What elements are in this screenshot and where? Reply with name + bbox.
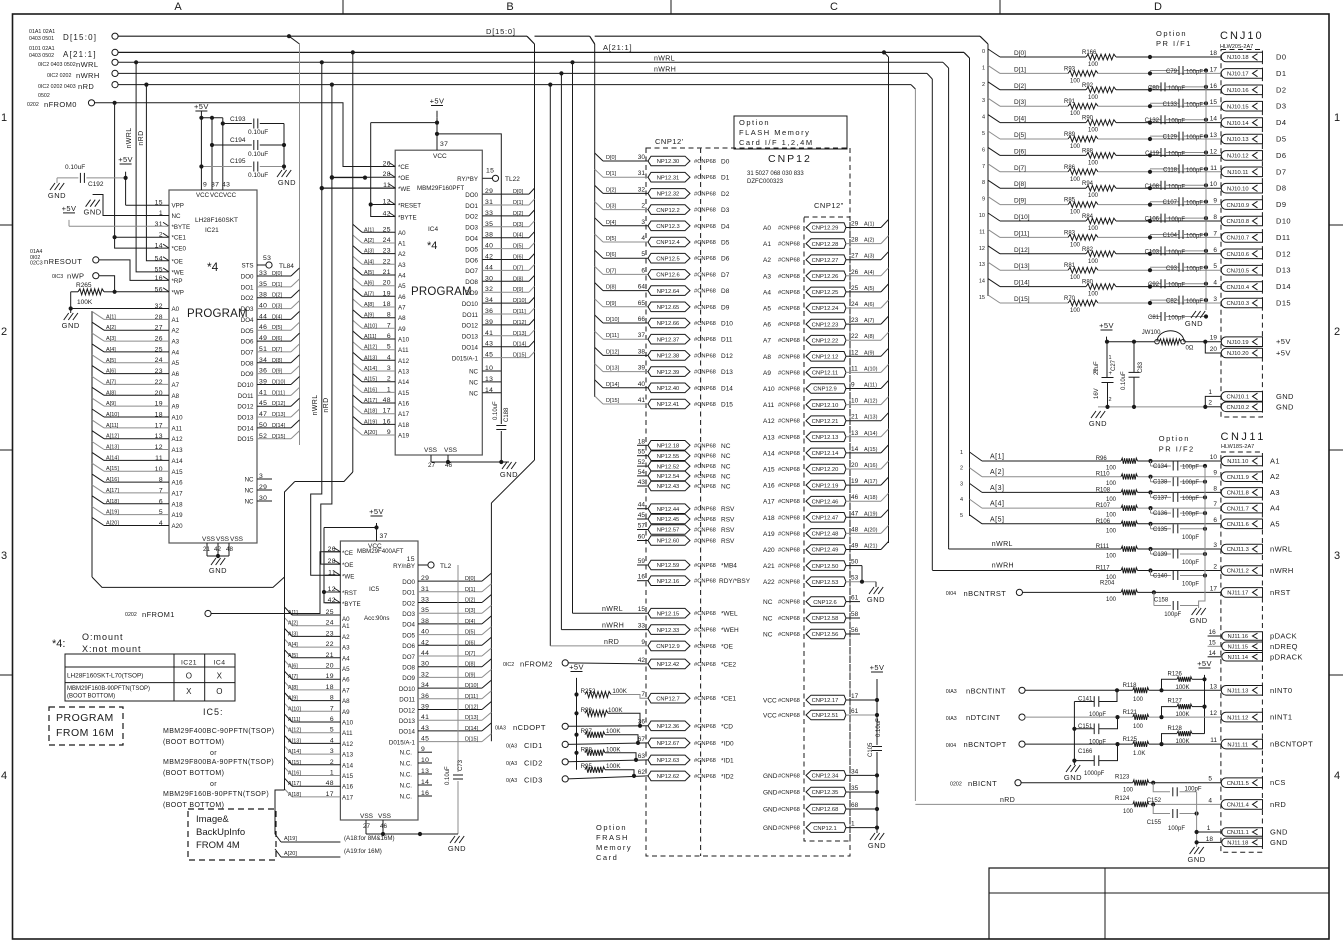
wire nRD to CNP12 OE [550,645,648,647]
wire nWRH [118,72,927,74]
svg-text:NP12.37: NP12.37 [657,337,680,343]
connector pin CNP12.38 D12 [648,351,690,361]
svg-text:#CNP68: #CNP68 [694,758,716,764]
svg-text:A10: A10 [172,415,184,422]
capacitor C140 [1150,571,1152,576]
svg-text:A18: A18 [398,422,410,429]
svg-text:CNJ11.6: CNJ11.6 [1227,522,1249,528]
svg-text:NP12.55: NP12.55 [657,454,680,460]
svg-text:R96: R96 [1096,456,1108,462]
svg-text:100pF: 100pF [1182,560,1199,566]
svg-text:A5: A5 [172,360,180,367]
flash memory IC4 MBM29F160PFT [395,150,482,455]
svg-text:D[5]: D[5] [513,244,524,250]
svg-text:A(8): A(8) [864,334,875,340]
svg-text:49: 49 [851,543,859,550]
svg-text:#CNP68: #CNP68 [694,321,716,327]
svg-text:DO9: DO9 [402,675,415,682]
svg-text:X:not mount: X:not mount [82,644,142,654]
svg-text:100: 100 [1088,193,1099,199]
svg-text:nWP: nWP [67,272,84,281]
svg-text:#CNP68: #CNP68 [778,451,800,457]
svg-text:NC: NC [721,443,731,450]
svg-text:A7: A7 [763,338,771,345]
svg-text:2: 2 [1334,326,1340,338]
svg-text:0IC2: 0IC2 [503,662,514,668]
svg-text:A19: A19 [172,512,184,519]
svg-text:D0: D0 [721,159,730,166]
svg-text:A16: A16 [172,480,184,487]
svg-text:18: 18 [1206,836,1214,843]
svg-text:D12: D12 [721,353,733,360]
svg-text:*BYTE: *BYTE [398,215,417,222]
svg-text:*WEL: *WEL [721,611,738,618]
svg-text:0Ω: 0Ω [1186,346,1194,352]
svg-text:A16: A16 [398,401,410,408]
svg-text:100: 100 [1088,160,1099,166]
svg-text:D[7]: D[7] [465,651,476,657]
wire nWRH to CNJ11 [932,570,1121,572]
svg-text:NC: NC [721,453,731,460]
svg-text:CNJ10.4: CNJ10.4 [1227,285,1250,291]
svg-text:DO14: DO14 [237,425,254,432]
svg-text:D10: D10 [1276,217,1291,226]
svg-text:*MB4: *MB4 [721,563,737,570]
svg-text:+5V: +5V [430,97,445,106]
svg-text:100pF: 100pF [1168,283,1185,289]
svg-text:DO2: DO2 [465,214,478,221]
svg-text:CNJ10.9: CNJ10.9 [1227,203,1250,209]
svg-text:C104: C104 [1163,233,1178,239]
svg-text:#CNP68: #CNP68 [778,600,800,606]
svg-text:STS: STS [241,263,253,270]
svg-text:nBCNTINT: nBCNTINT [966,686,1006,695]
svg-text:PR I/F2: PR I/F2 [1159,445,1195,454]
svg-text:GND: GND [48,191,66,200]
svg-text:nWRL: nWRL [602,606,623,613]
svg-text:(A18:for 8M&16M): (A18:for 8M&16M) [344,835,395,842]
IC4 WE wire [322,187,395,189]
svg-text:*ID1: *ID1 [721,757,734,764]
svg-text:18: 18 [638,438,646,445]
svg-text:GND: GND [62,321,80,330]
svg-text:A[5]: A[5] [364,270,374,276]
svg-text:2: 2 [1208,400,1212,407]
svg-text:N.C.: N.C. [400,783,413,790]
svg-text:100K: 100K [606,763,621,770]
svg-text:11: 11 [1210,737,1217,744]
svg-text:GND: GND [448,844,466,853]
svg-text:*CE: *CE [342,550,353,557]
svg-text:#CNP68: #CNP68 [694,159,716,165]
svg-text:100: 100 [1106,554,1117,560]
svg-text:or: or [210,750,217,757]
svg-text:100: 100 [1123,809,1134,815]
svg-text:Image&: Image& [196,814,229,825]
capacitor C27 electrolytic [1106,342,1108,378]
svg-text:NP12.36: NP12.36 [657,724,680,730]
svg-text:A[18]: A[18] [106,499,119,505]
svg-text:D3: D3 [1276,102,1286,111]
capacitor C73 [457,565,459,772]
svg-text:*OE: *OE [172,258,183,265]
svg-text:C105: C105 [868,742,874,757]
svg-text:D[2]: D[2] [606,187,617,193]
svg-text:#CNP68: #CNP68 [694,539,716,545]
capacitor C139 [1150,549,1152,554]
svg-text:100: 100 [1070,111,1081,117]
svg-text:A2: A2 [763,257,771,264]
svg-text:8: 8 [1213,214,1217,221]
svg-text:A4: A4 [172,349,180,356]
svg-text:nCDOPT: nCDOPT [513,723,546,732]
svg-text:VSS: VSS [424,447,438,454]
row ticks right [1329,224,1343,226]
svg-text:A[9]: A[9] [106,401,116,407]
svg-text:52: 52 [638,459,646,466]
svg-text:100K: 100K [1176,712,1190,718]
svg-text:+5V: +5V [870,663,885,672]
svg-text:A[1]: A[1] [106,314,116,320]
svg-text:D[9]: D[9] [1014,198,1026,205]
connector pin CNP12.40 D14 [648,383,690,393]
svg-text:#CNP68: #CNP68 [694,628,716,634]
svg-text:100: 100 [1106,597,1117,603]
svg-text:*RESET: *RESET [398,203,421,210]
svg-text:#CNP68: #CNP68 [778,548,800,554]
svg-text:+5V: +5V [194,102,209,111]
svg-text:0202: 0202 [950,782,962,788]
capacitor C93 [1150,266,1179,268]
svg-text:A15: A15 [342,773,354,780]
svg-text:D[4]: D[4] [1014,116,1026,123]
svg-text:C133: C133 [1163,102,1178,108]
wire nRD tap to IC4 [330,83,334,87]
svg-text:GND: GND [1089,419,1107,428]
svg-text:15: 15 [638,606,646,613]
ground NC pin IC21 [93,195,169,216]
svg-text:A[3]: A[3] [990,485,1004,492]
svg-text:15: 15 [407,556,415,563]
svg-text:+5V: +5V [118,155,133,164]
svg-text:9: 9 [1213,198,1217,205]
svg-text:nWRH: nWRH [654,67,676,74]
svg-text:A2: A2 [1270,472,1280,481]
svg-text:#: # [1093,368,1097,375]
svg-text:D[6]: D[6] [272,336,283,342]
svg-text:nWRL: nWRL [312,394,319,415]
svg-text:#CNP68: #CNP68 [778,826,800,832]
svg-text:VCC: VCC [210,192,224,199]
svg-text:50: 50 [851,559,859,566]
ground CNP12 A22 [875,582,877,587]
svg-text:A(11): A(11) [864,383,877,389]
svg-text:A10: A10 [763,386,775,393]
svg-text:#CNP68: #CNP68 [778,807,800,813]
svg-text:11: 11 [1210,165,1217,172]
wire nFROM0 tap to IC21 CE [113,101,117,105]
svg-text:NP12.16: NP12.16 [657,579,680,585]
svg-text:#CNP68: #CNP68 [778,580,800,586]
svg-text:D4: D4 [721,223,730,230]
svg-text:*BYTE: *BYTE [172,224,191,231]
svg-text:A14: A14 [398,379,410,386]
capacitor C92 [1150,283,1161,285]
svg-text:BackUpInfo: BackUpInfo [196,827,245,838]
wire nWRL vertical to CNJ11 [948,68,950,548]
svg-text:0(A3: 0(A3 [506,744,517,750]
svg-text:#CNP68: #CNP68 [694,191,716,197]
svg-text:A3: A3 [172,339,180,346]
svg-text:CNP12.7: CNP12.7 [656,696,680,702]
ground IC21 VSS [211,558,216,565]
svg-text:R121: R121 [1123,710,1138,716]
capacitor C135 [1150,524,1152,529]
svg-text:1: 1 [851,821,855,828]
svg-text:0.10uF: 0.10uF [248,151,268,158]
svg-text:DO3: DO3 [465,225,478,232]
wire A bus tap to IC4 fan [351,50,355,54]
svg-text:#CNP68: #CNP68 [694,402,716,408]
svg-text:C118: C118 [1163,167,1178,173]
svg-text:A9: A9 [172,404,180,411]
svg-text:15: 15 [1209,639,1217,646]
svg-text:#CNP68: #CNP68 [694,208,716,214]
svg-text:4: 4 [1213,280,1217,287]
svg-text:CNJ10.5: CNJ10.5 [1227,268,1250,274]
svg-text:GND: GND [1064,773,1082,782]
svg-text:19: 19 [851,478,859,485]
capacitor C129 [1150,135,1179,137]
svg-text:32: 32 [638,186,646,193]
svg-text:CNP12.9: CNP12.9 [656,644,680,650]
svg-text:A16: A16 [342,784,354,791]
svg-text:NJ10.18: NJ10.18 [1227,55,1249,61]
svg-text:15: 15 [979,295,985,301]
svg-text:31: 31 [638,170,646,177]
svg-text:A(16): A(16) [864,463,878,469]
svg-text:NP12.41: NP12.41 [657,402,680,408]
svg-text:*OE: *OE [721,643,734,650]
svg-text:nWRL: nWRL [126,127,133,148]
svg-text:D[13]: D[13] [606,366,620,372]
svg-text:#CNP68: #CNP68 [778,773,800,779]
svg-text:R127: R127 [1168,699,1183,705]
svg-text:DO14: DO14 [462,345,479,352]
svg-text:2: 2 [641,203,645,210]
svg-text:D[0]: D[0] [513,189,524,195]
svg-text:47: 47 [851,510,859,517]
ground IC5 VSS [450,836,455,843]
svg-text:(BOOT BOTTOM): (BOOT BOTTOM) [67,694,115,700]
svg-text:D[3]: D[3] [513,222,524,228]
svg-text:#CNP68: #CNP68 [694,579,716,585]
CNJ10 dashed box [1221,50,1262,418]
svg-text:A[8]: A[8] [364,302,374,308]
svg-text:D[15]: D[15] [606,398,620,404]
svg-text:CNP12.9: CNP12.9 [813,387,837,393]
svg-text:nRST: nRST [1270,588,1291,597]
svg-text:D[9]: D[9] [513,287,524,293]
svg-text:C158: C158 [1154,598,1169,604]
svg-text:D[1]: D[1] [513,200,524,206]
svg-text:100: 100 [1070,210,1081,216]
svg-text:nINT1: nINT1 [1270,713,1292,722]
svg-text:D3: D3 [721,207,730,214]
svg-text:D[12]: D[12] [1014,247,1030,254]
wire D bus tap to IC4/IC5 data fan [534,44,536,460]
svg-text:*ID0: *ID0 [721,740,734,747]
svg-text:#CNP68: #CNP68 [778,564,800,570]
svg-text:#CNP68: #CNP68 [778,515,800,521]
svg-text:D[4]: D[4] [272,314,283,320]
ground CNJ10 cap cluster [1098,406,1205,408]
svg-text:A[20]: A[20] [364,430,377,436]
svg-text:D[1]: D[1] [606,171,617,177]
svg-text:4: 4 [1208,797,1212,804]
svg-text:D[14]: D[14] [1014,280,1030,287]
svg-text:#CNP68: #CNP68 [694,507,716,513]
svg-text:NJ10.10: NJ10.10 [1227,186,1249,192]
svg-text:62: 62 [638,769,646,776]
svg-text:X: X [186,687,192,696]
svg-text:O: O [216,687,223,696]
svg-text:D[5]: D[5] [606,236,617,242]
svg-text:D[1]: D[1] [272,282,283,288]
mount option table [65,654,235,701]
svg-text:A[12]: A[12] [364,345,377,351]
svg-text:DO12: DO12 [237,404,254,411]
svg-text:nINT0: nINT0 [1270,686,1292,695]
wire A bus vertical IC21 fan [91,311,93,577]
svg-text:C129: C129 [1163,135,1178,141]
svg-text:A6: A6 [398,294,406,301]
svg-text:CNP12.11: CNP12.11 [812,371,838,377]
svg-text:6: 6 [1213,247,1217,254]
svg-text:D[2]: D[2] [272,293,283,299]
svg-text:D5: D5 [1276,135,1286,144]
svg-text:GND: GND [1270,828,1288,837]
svg-text:NJ10.13: NJ10.13 [1227,137,1249,143]
IC21 A0 ground tie [71,308,118,310]
svg-text:NC: NC [469,369,478,376]
svg-text:R166: R166 [1082,50,1097,56]
svg-text:(A19:for 16M): (A19:for 16M) [344,848,382,855]
svg-text:11: 11 [979,229,985,235]
svg-text:D[9]: D[9] [272,369,283,375]
svg-text:NJ11.15: NJ11.15 [1228,645,1248,651]
svg-text:D11: D11 [721,337,733,344]
svg-text:D015/A-1: D015/A-1 [389,739,416,746]
svg-text:10: 10 [155,466,163,473]
svg-text:27: 27 [363,823,371,830]
svg-text:57: 57 [638,523,646,530]
svg-text:0.10uF: 0.10uF [248,129,268,136]
svg-text:100: 100 [1088,226,1099,232]
svg-text:D015/A-1: D015/A-1 [452,355,479,362]
svg-text:A(6): A(6) [864,302,875,308]
wire nRD to CNJ11 [915,803,1121,805]
svg-text:15: 15 [1210,99,1218,106]
svg-text:DO12: DO12 [399,707,416,714]
svg-text:10: 10 [979,213,985,219]
svg-text:#CNP68: #CNP68 [694,454,716,460]
svg-text:FROM 16M: FROM 16M [56,727,114,739]
svg-text:A[19]: A[19] [284,836,297,842]
svg-text:0502: 0502 [38,93,50,99]
svg-text:17: 17 [851,693,859,700]
svg-text:DO4: DO4 [241,317,254,324]
capacitor C104 [1150,234,1179,236]
svg-text:0202: 0202 [125,612,137,618]
svg-text:R107: R107 [1096,503,1111,509]
svg-text:B: B [506,1,513,13]
svg-text:0.10uF: 0.10uF [248,172,268,179]
svg-text:nFROM2: nFROM2 [520,660,553,669]
svg-text:VCC: VCC [433,153,447,160]
svg-text:PROGRAM: PROGRAM [411,286,472,298]
svg-text:#CNP68: #CNP68 [694,662,716,668]
svg-text:100K: 100K [77,299,93,306]
svg-text:0IC3: 0IC3 [52,274,63,280]
svg-text:D8: D8 [1276,184,1286,193]
svg-text:DO1: DO1 [241,284,254,291]
svg-text:#CNP68: #CNP68 [778,616,800,622]
svg-text:100pF: 100pF [1168,250,1185,256]
svg-text:N.C.: N.C. [400,772,413,779]
svg-text:23: 23 [851,317,859,324]
svg-text:*OE: *OE [342,562,353,569]
svg-text:100: 100 [1070,308,1081,314]
svg-text:A11: A11 [342,730,353,737]
note Image BackUpInfo FROM 4M [188,809,276,860]
svg-text:VSS: VSS [230,536,244,543]
wire nFROM0 [94,103,365,167]
svg-text:A2: A2 [342,634,350,641]
svg-text:C166: C166 [1078,749,1093,755]
svg-text:R126: R126 [1168,672,1183,678]
svg-text:A14: A14 [342,762,354,769]
wire nWRL tap to IC21 [134,60,138,64]
svg-text:A(4): A(4) [864,270,875,276]
svg-text:NP12.33: NP12.33 [657,628,680,634]
connector pin CNP12.66 D10 [648,318,690,328]
svg-text:NC: NC [721,484,731,491]
svg-text:2: 2 [1,326,7,338]
svg-text:MBM29F800BA-90PFTN(TSOP): MBM29F800BA-90PFTN(TSOP) [163,759,274,766]
svg-text:A[15]: A[15] [364,377,377,383]
svg-text:*RP: *RP [172,278,183,285]
svg-text:41: 41 [638,397,646,404]
svg-text:D[5]: D[5] [1014,132,1026,139]
svg-text:100pF: 100pF [1182,465,1199,471]
svg-text:D[10]: D[10] [1014,214,1030,221]
svg-text:NP12.32: NP12.32 [657,192,680,198]
svg-text:CNJ11.2: CNJ11.2 [1227,569,1249,575]
svg-text:100pF: 100pF [1186,266,1203,272]
svg-text:NP12.15: NP12.15 [657,611,680,617]
svg-text:A1: A1 [763,241,771,248]
svg-text:20: 20 [851,462,859,469]
svg-text:D14: D14 [1276,282,1291,291]
connector pin CNP12.7 CE1 [648,693,690,703]
CNP12'' inner dashed box [804,217,850,841]
svg-text:A[12]: A[12] [106,434,119,440]
connector pin CNP12.37 D11 [648,334,690,344]
svg-text:DO11: DO11 [238,393,254,400]
svg-text:A7: A7 [342,687,350,694]
svg-text:28: 28 [851,237,859,244]
